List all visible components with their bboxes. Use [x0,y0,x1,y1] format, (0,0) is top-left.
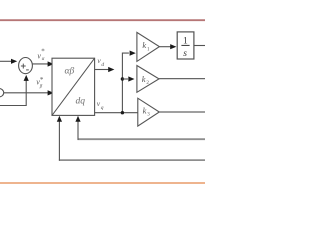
block B1 (alpha-beta / dq transform) [52,58,95,115]
summing junction S1 [19,58,33,74]
arrowhead into k2 [128,76,134,81]
arrowhead into summer S1 [11,59,17,64]
integrator block 1/s [177,32,194,59]
wire: v*beta from S2 to block B1 [4,92,49,94]
svg-text:k: k [143,105,147,115]
bottom rule (orange) [0,182,205,184]
svg-text:k: k [142,40,146,50]
plus sign in S1 [21,64,26,69]
wire: integrator output [194,45,205,47]
arrowhead into B1 bottom (outer) [57,116,62,122]
wire: v_d output of B1 [95,69,109,71]
wire: v_q output of B1 to k3 [95,112,138,114]
svg-text:d: d [101,62,104,68]
svg-text:*: * [41,48,45,56]
svg-text:β: β [39,84,43,89]
arrowhead up into S1 bottom [24,75,29,81]
wire: bus branch to k2 [122,78,128,80]
feedback wire F1 (inner) [78,138,206,140]
arrowhead into B1 bottom (inner) [75,116,80,122]
arrowhead into block B1 (v*beta) [48,90,54,95]
wire: S1 output v*alpha [32,63,48,65]
wire: k2 output [159,78,205,80]
diagonal of block B1 [52,58,95,115]
svg-text:*: * [40,76,44,84]
svg-text:s: s [183,49,187,59]
wire: input into summer S1 [0,60,12,62]
junction dot on bus at k2 branch [121,77,124,80]
gain k3 triangle [138,98,160,126]
minus sign in S1 [26,69,29,71]
gain k2 triangle [137,66,159,93]
svg-text:dq: dq [76,96,86,106]
summer S2 (cut at left edge) [0,88,4,97]
arrowhead into integrator [170,44,176,49]
vertical bus wire [122,53,128,113]
svg-text:k: k [142,74,146,84]
wire: bottom-left horizontal into vertical riser [0,81,26,106]
arrowhead v_d [108,67,114,72]
gain k1 triangle [137,32,160,61]
arrowhead into k1 [130,51,136,56]
wire: k3 output [159,111,205,113]
svg-text:q: q [101,105,104,111]
svg-text:α: α [42,57,45,62]
junction dot on v_q wire [121,111,124,114]
feedback wire F2 (outer) [59,159,205,161]
wire: k1 to integrator [159,46,170,48]
top rule (red) [0,19,205,21]
svg-text:αβ: αβ [65,67,75,77]
arrowhead into block B1 (v*alpha) [48,61,54,66]
